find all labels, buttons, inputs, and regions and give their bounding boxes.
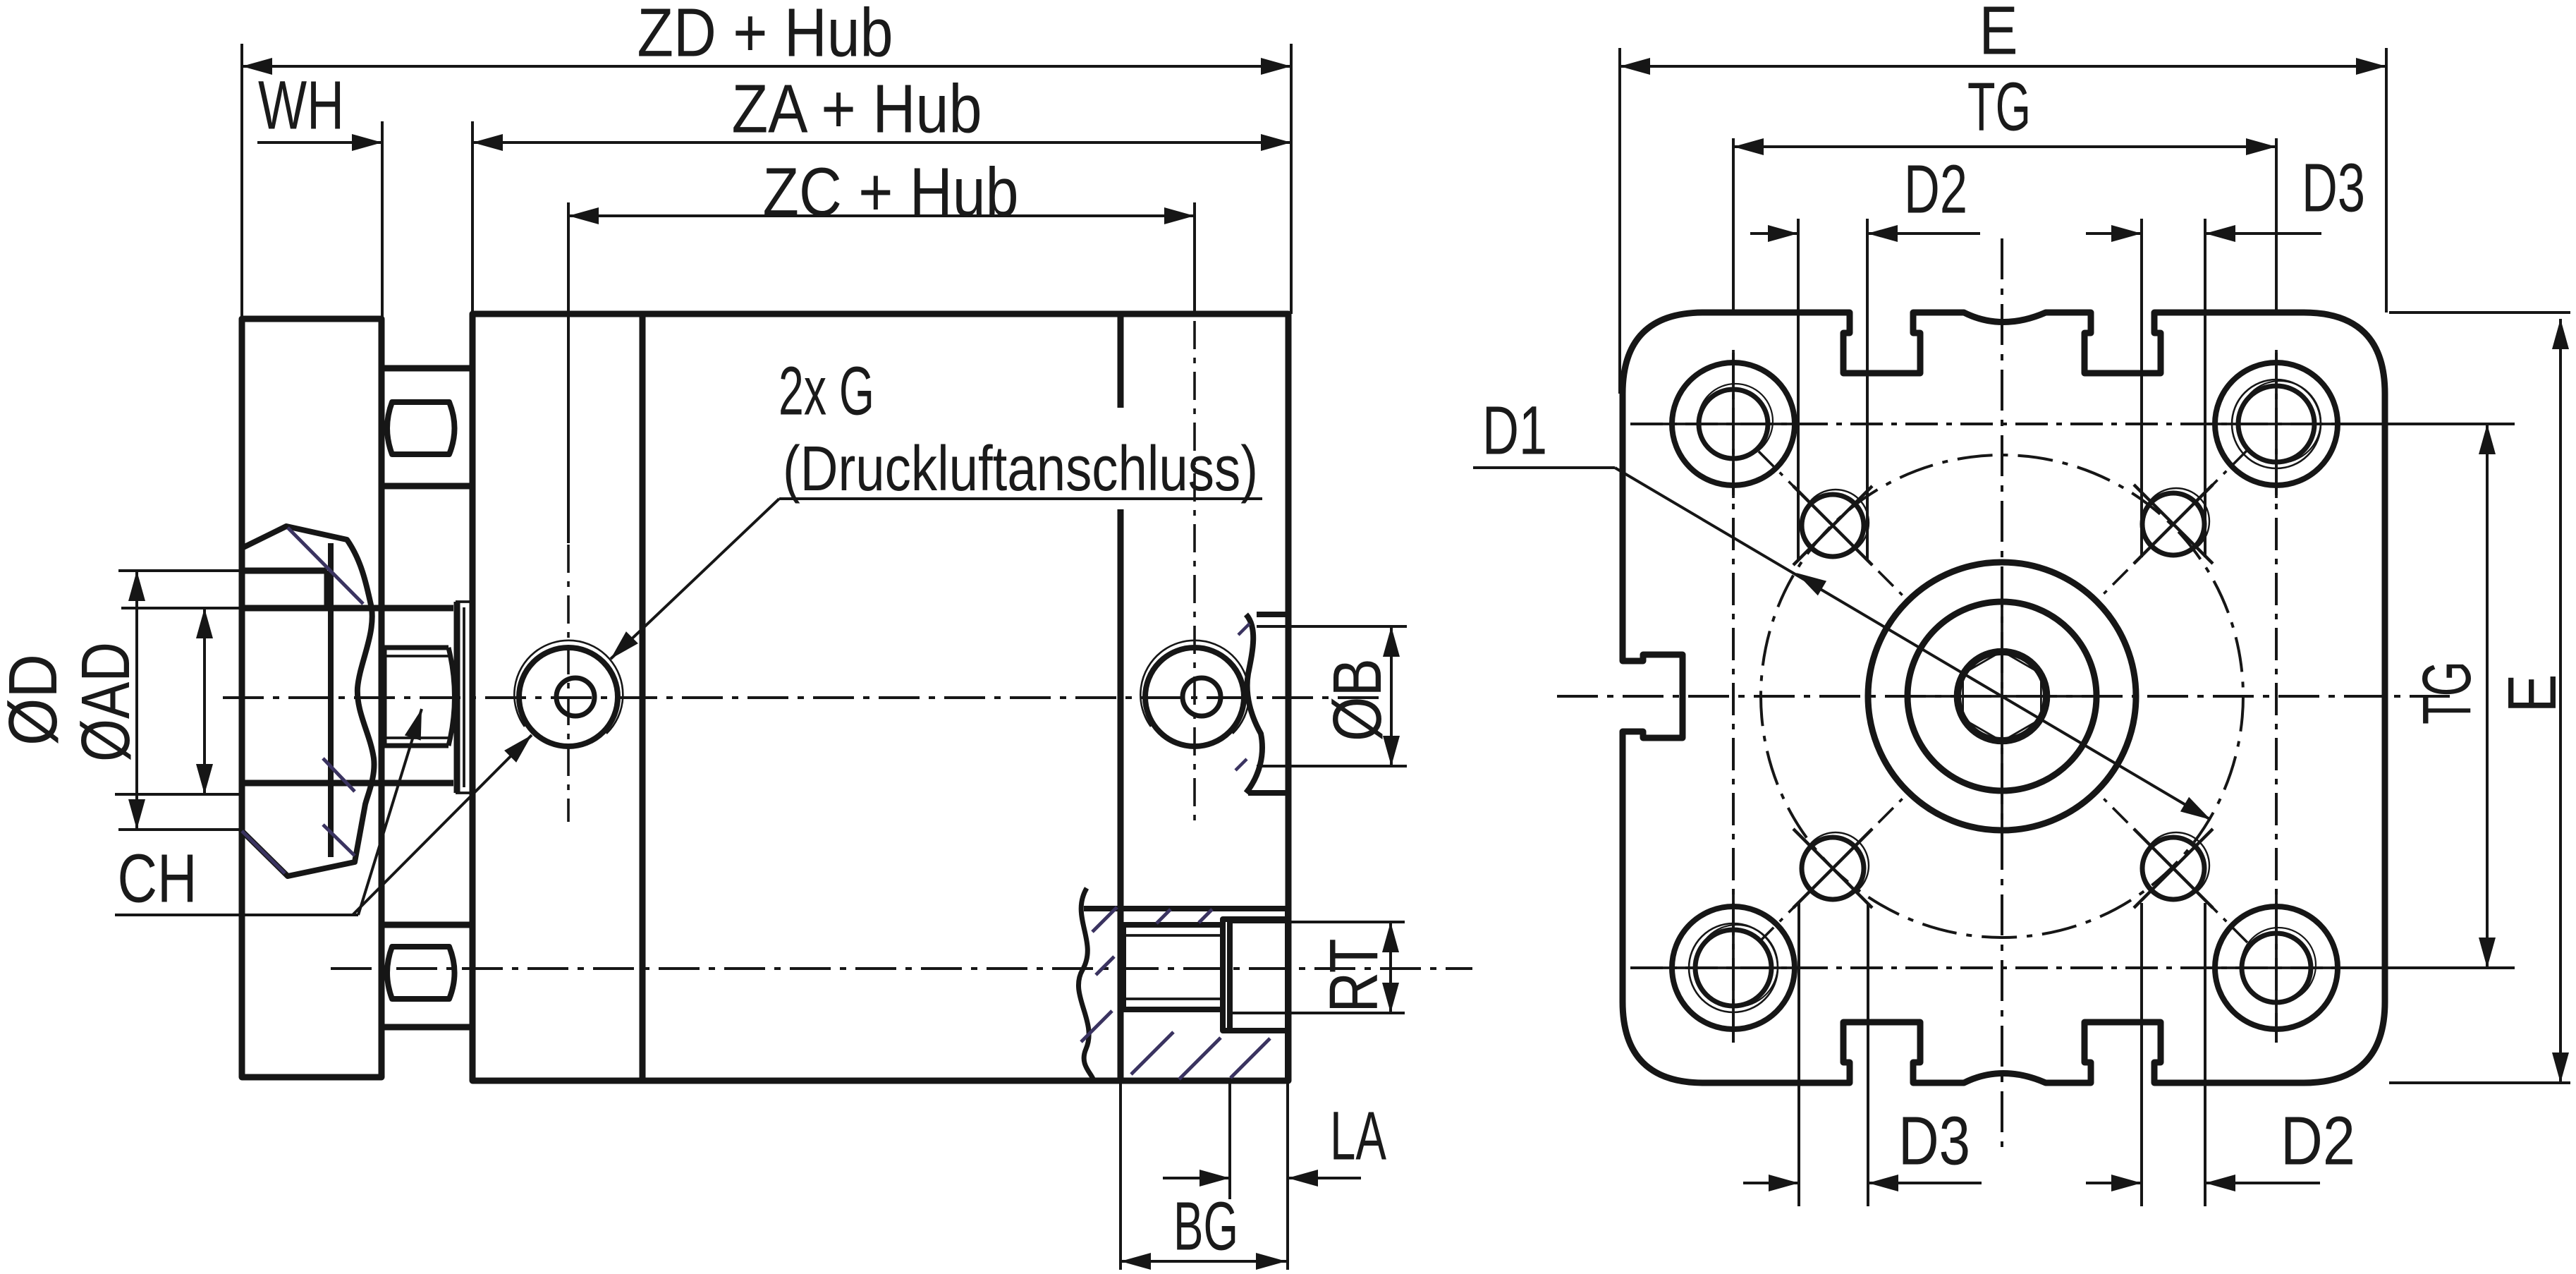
screw hole H-TR counterbore <box>2215 363 2338 485</box>
dowel hole XTL thin ring <box>1802 490 1869 556</box>
wire: H-BL crosshair vertical <box>1732 894 1735 1042</box>
screw hole H-BR counterbore <box>2215 906 2338 1029</box>
wire: H-BL crosshair horizontal <box>1659 966 1807 969</box>
wire: H-TR extra thin arc <box>2239 381 2321 463</box>
wire: H-TR crosshair horizontal <box>2202 423 2350 425</box>
dimension OAD <box>121 607 243 609</box>
screw hole H-BL thread thin ring <box>1689 923 1778 1012</box>
dimension RT <box>1227 921 1405 923</box>
svg-text:D3: D3 <box>2302 150 2365 226</box>
wire: bottom screw pocket lower line <box>383 1024 472 1031</box>
screw hole H-TL thin ring <box>1698 384 1773 459</box>
wire: rod end boss top <box>243 605 453 612</box>
dimension E (height, right side) <box>2389 311 2570 314</box>
svg-text:D3: D3 <box>1898 1103 1970 1179</box>
svg-text:ZA + Hub: ZA + Hub <box>732 71 982 147</box>
wire: rod end boss bottom <box>243 780 453 787</box>
wire: XTL diagonal center line <box>1759 451 1907 600</box>
dowel hole XBR <box>2142 837 2204 899</box>
port P1 thin ring arc <box>514 641 623 734</box>
wire: RT hatch 7 <box>1231 1038 1270 1078</box>
wire: rod thread major top <box>384 645 448 650</box>
cylinder body outline <box>472 314 1288 1081</box>
screw hole H-TL bore <box>1699 389 1768 459</box>
wire: lower mounting screw axis center line <box>331 967 1472 970</box>
wire: nut top flat <box>243 568 327 574</box>
wire: bore crosshair vertical <box>2001 589 2003 833</box>
wire: H-BR crosshair vertical <box>2275 894 2278 1042</box>
screw hole H-BR thin ring <box>2241 928 2316 1002</box>
wire: rod washer top <box>456 600 472 603</box>
dimension ZD + Hub <box>240 44 243 319</box>
dimension LA <box>1228 1081 1231 1199</box>
dimension ZA + Hub <box>471 121 474 314</box>
nut N1 (rod clamp nut) sectioned profile <box>240 526 374 876</box>
wire: top screw pocket upper line <box>381 365 472 372</box>
plug PL1 (RT plug) thread body <box>1123 925 1223 1009</box>
wire: H-BR crosshair horizontal <box>2202 966 2350 969</box>
svg-text:D2: D2 <box>2281 1103 2355 1179</box>
wire: cylinder bore left wall <box>640 314 646 1081</box>
wire: RT pocket top line <box>1084 906 1288 911</box>
wire: right port vertical center line <box>1193 321 1196 822</box>
dimension BG <box>1119 1081 1122 1270</box>
wire: H-TR crosshair vertical <box>2275 350 2278 498</box>
svg-text:ØD: ØD <box>0 654 71 746</box>
bore B1 outer circle <box>1868 562 2136 830</box>
wire: XBL X cross 1 <box>1793 829 1872 908</box>
dowel hole XBR thin ring <box>2143 832 2209 899</box>
svg-text:LA: LA <box>1330 1098 1386 1175</box>
wire: OB pocket break profile <box>1246 614 1262 793</box>
wire: right hole column center line <box>2275 353 2278 1043</box>
wire: RT hatch 6 <box>1179 1038 1221 1079</box>
port P1 (2x G air connection, left) <box>519 648 618 746</box>
wire: right view vertical center line <box>2001 238 2003 1147</box>
wire: RT hatch 8 <box>1096 957 1114 975</box>
wire: H-TL crosshair horizontal <box>1659 423 1807 425</box>
wire: OB pocket bottom <box>1248 790 1288 796</box>
rod hex socket <box>1963 651 2041 741</box>
dimension E (width) <box>1618 48 1621 394</box>
dowel hole XBL thin ring <box>1802 832 1869 899</box>
dimension D2 (top) <box>1797 219 1800 561</box>
svg-text:WH: WH <box>258 67 344 144</box>
svg-text:TG: TG <box>1967 68 2031 145</box>
dowel hole XTR thin ring <box>2143 488 2209 554</box>
svg-text:TG: TG <box>2408 661 2485 724</box>
svg-text:E: E <box>1979 0 2018 69</box>
dowel hole XTL <box>1802 495 1864 557</box>
svg-text:ZD + Hub: ZD + Hub <box>637 0 893 71</box>
wire: rod washer left face <box>454 602 460 793</box>
wire: nut hatch stroke 3 <box>323 825 355 856</box>
wire: nut hatch stroke 4 <box>323 758 355 791</box>
dimension OD (rod nut diameter) <box>118 569 243 572</box>
screw hole H-BL counterbore <box>1672 906 1795 1029</box>
dimension OB <box>1257 625 1407 628</box>
svg-text:ØAD: ØAD <box>67 642 144 762</box>
wire: RT hatch 1 <box>1092 907 1117 932</box>
wire: RT pocket right wall <box>1285 909 1290 1081</box>
wire: OB pocket top <box>1257 612 1288 617</box>
wire: XTR X cross 2 <box>2134 485 2213 564</box>
screw hole H-TL counterbore <box>1672 363 1795 485</box>
wire: nut hatch stroke 2 <box>242 831 285 873</box>
wire: XTR diagonal center line <box>2099 450 2247 598</box>
wire: OB hatch stroke 2 <box>1238 624 1250 635</box>
wire: RT hatch 4 <box>1081 1011 1112 1042</box>
screw hole H-BL thread bore <box>1695 930 1771 1006</box>
wire: H-TL crosshair vertical <box>1732 350 1735 498</box>
wire: plug head inner face <box>1227 919 1233 1031</box>
wire: rod thread major bottom <box>384 744 448 748</box>
bore B1 inner circle <box>1907 602 2096 791</box>
dimension TG (vertical, right side) <box>2338 423 2515 425</box>
dowel hole XTR <box>2142 493 2204 555</box>
wire: piston rod axis center line <box>223 696 1379 699</box>
wire: XBR X cross 2 <box>2134 829 2213 908</box>
screw hole H-BR bore <box>2242 933 2311 1002</box>
wire: rod thread minor bottom <box>384 736 451 739</box>
svg-text:2x G: 2x G <box>779 353 874 430</box>
dimension D3 (bottom) <box>1797 903 1800 1206</box>
wire: RT hatch 2 <box>1156 909 1171 923</box>
screw S1 head (top mounting screw) <box>387 402 455 454</box>
dimension D3 (top) <box>2140 219 2143 557</box>
dimension ZC + Hub <box>567 202 570 543</box>
wire: right view horizontal center line <box>1557 695 2450 698</box>
wire: plug thread minor bottom <box>1123 997 1223 1000</box>
svg-text:(Druckluftanschluss): (Druckluftanschluss) <box>783 434 1258 504</box>
wire: nut top flat step <box>324 571 331 608</box>
wire: rod thread left end <box>382 648 387 746</box>
dowel hole XBL <box>1802 837 1864 899</box>
wire: nut hatch stroke 1 <box>288 528 363 604</box>
wire: RT break-out wavy line <box>1078 888 1094 1081</box>
wire: rod washer inner line <box>463 607 465 787</box>
wire: XTL X cross 1 <box>1793 486 1872 565</box>
wire: CH leader to port <box>353 735 532 915</box>
wire: top hole row center line <box>1630 423 2350 425</box>
wire: XBR diagonal center line <box>2099 794 2247 942</box>
wire: H-BL extra thin arc <box>1696 925 1778 1007</box>
screw hole H-TR thread bore <box>2238 386 2314 462</box>
wire: XTL X cross 2 <box>1793 486 1872 565</box>
wire: bore crosshair horizontal <box>1891 695 2119 698</box>
wire: XBL diagonal center line <box>1759 794 1907 942</box>
wire: bottom screw pocket upper line <box>381 922 472 928</box>
wire: bore right wall lower segment <box>1118 509 1124 1081</box>
wire: OB hatch stroke 1 <box>1235 759 1247 770</box>
plug PL1 head <box>1223 919 1288 1031</box>
left cap plate outline <box>242 319 381 1077</box>
wire: top screw pocket lower line <box>381 483 472 490</box>
svg-text:CH: CH <box>118 840 197 917</box>
dimension TG (top) <box>1732 138 1735 313</box>
svg-text:BG: BG <box>1173 1188 1238 1265</box>
wire: plug thread minor top <box>1123 934 1223 937</box>
svg-text:E: E <box>2493 674 2570 713</box>
wire: bolt pitch circle <box>1761 455 2243 938</box>
wire: bottom hole row center line <box>1630 966 2350 969</box>
port P2 (2x G air connection, right) <box>1145 648 1244 746</box>
end cap face outline with T-slots <box>1623 313 2385 1083</box>
wire: bore right wall upper segment <box>1118 314 1124 408</box>
port P2 inner hole <box>1183 678 1221 716</box>
wire: rod washer bottom <box>456 791 472 794</box>
dimension WH <box>381 121 384 319</box>
wire: nut bore line <box>328 543 334 857</box>
piston rod circle <box>1958 653 2046 740</box>
piston rod thin ring <box>1955 649 2049 744</box>
svg-text:D1: D1 <box>1482 392 1547 469</box>
wire: left port vertical center line <box>567 494 570 822</box>
svg-text:ØB: ØB <box>1319 658 1396 741</box>
wire: left hole column center line <box>1732 353 1735 1043</box>
port P2 thin ring arc <box>1140 641 1249 734</box>
wire: rod thread end arc <box>448 648 455 746</box>
dimension D2 (bottom) <box>2140 903 2143 1206</box>
wire: XBL X cross 2 <box>1793 829 1872 908</box>
screw S2 head (bottom mounting screw) <box>387 947 455 999</box>
wire: rod thread minor top <box>384 655 451 657</box>
svg-text:RT: RT <box>1315 939 1392 1013</box>
svg-text:ZC + Hub: ZC + Hub <box>763 154 1019 231</box>
wire: XTR X cross 1 <box>2134 485 2213 564</box>
wire: XBR X cross 1 <box>2134 829 2213 908</box>
wire: RT hatch 3 <box>1199 909 1212 923</box>
wire: RT hatch 5 <box>1131 1032 1173 1074</box>
port P1 inner hole <box>556 678 594 716</box>
screw hole H-TR thread thin ring <box>2232 380 2321 468</box>
svg-text:D2: D2 <box>1904 151 1967 228</box>
